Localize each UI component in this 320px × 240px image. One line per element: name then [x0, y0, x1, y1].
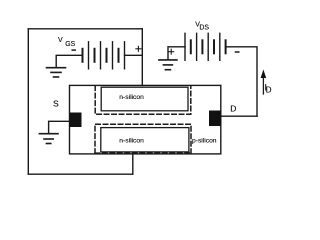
svg-text:S: S	[53, 98, 59, 108]
ground VDS	[159, 60, 177, 70]
depletion boundary bottom (dashed)	[95, 124, 191, 153]
svg-text:V: V	[58, 37, 63, 44]
wire source lead	[49, 121, 70, 133]
ground VGS	[47, 68, 66, 77]
source contact (black square)	[70, 113, 82, 128]
wire VGS positive lead	[125, 54, 143, 56]
drain contact (black square)	[209, 111, 221, 127]
device body outline	[70, 85, 221, 153]
svg-text:n-silicon: n-silicon	[119, 94, 144, 101]
wire top gate lead	[141, 29, 143, 86]
wire VDS positive lead	[168, 47, 185, 60]
depletion boundary top (dashed)	[95, 86, 191, 114]
wire bottom gate lead	[132, 154, 134, 174]
battery VGS	[83, 42, 125, 69]
n-silicon bottom region	[101, 128, 189, 152]
battery VDS	[185, 33, 226, 60]
wire gate loop top edge	[28, 28, 142, 30]
svg-text:n-silicon: n-silicon	[119, 138, 144, 145]
wire VGS negative lead	[56, 55, 82, 67]
n-silicon top region	[101, 87, 188, 111]
svg-text:GS: GS	[65, 41, 75, 48]
wire VDS negative lead	[226, 47, 257, 116]
VDS plus sign	[169, 49, 174, 54]
svg-text:DS: DS	[199, 25, 209, 32]
arrow ID (drain current)	[261, 70, 267, 95]
wire gate loop left edge	[27, 29, 29, 174]
VDS minus sign	[236, 51, 239, 53]
depletion boundary bottom lower side (dashed)	[95, 152, 191, 154]
VGS minus sign	[72, 49, 75, 51]
VGS plus sign	[136, 46, 141, 51]
wire drain lead	[221, 115, 257, 117]
svg-text:D: D	[230, 103, 236, 113]
svg-text:D: D	[266, 85, 272, 94]
svg-text:p-silicon: p-silicon	[192, 137, 217, 144]
wire gate loop bottom edge	[28, 173, 133, 175]
ground source	[39, 134, 58, 144]
